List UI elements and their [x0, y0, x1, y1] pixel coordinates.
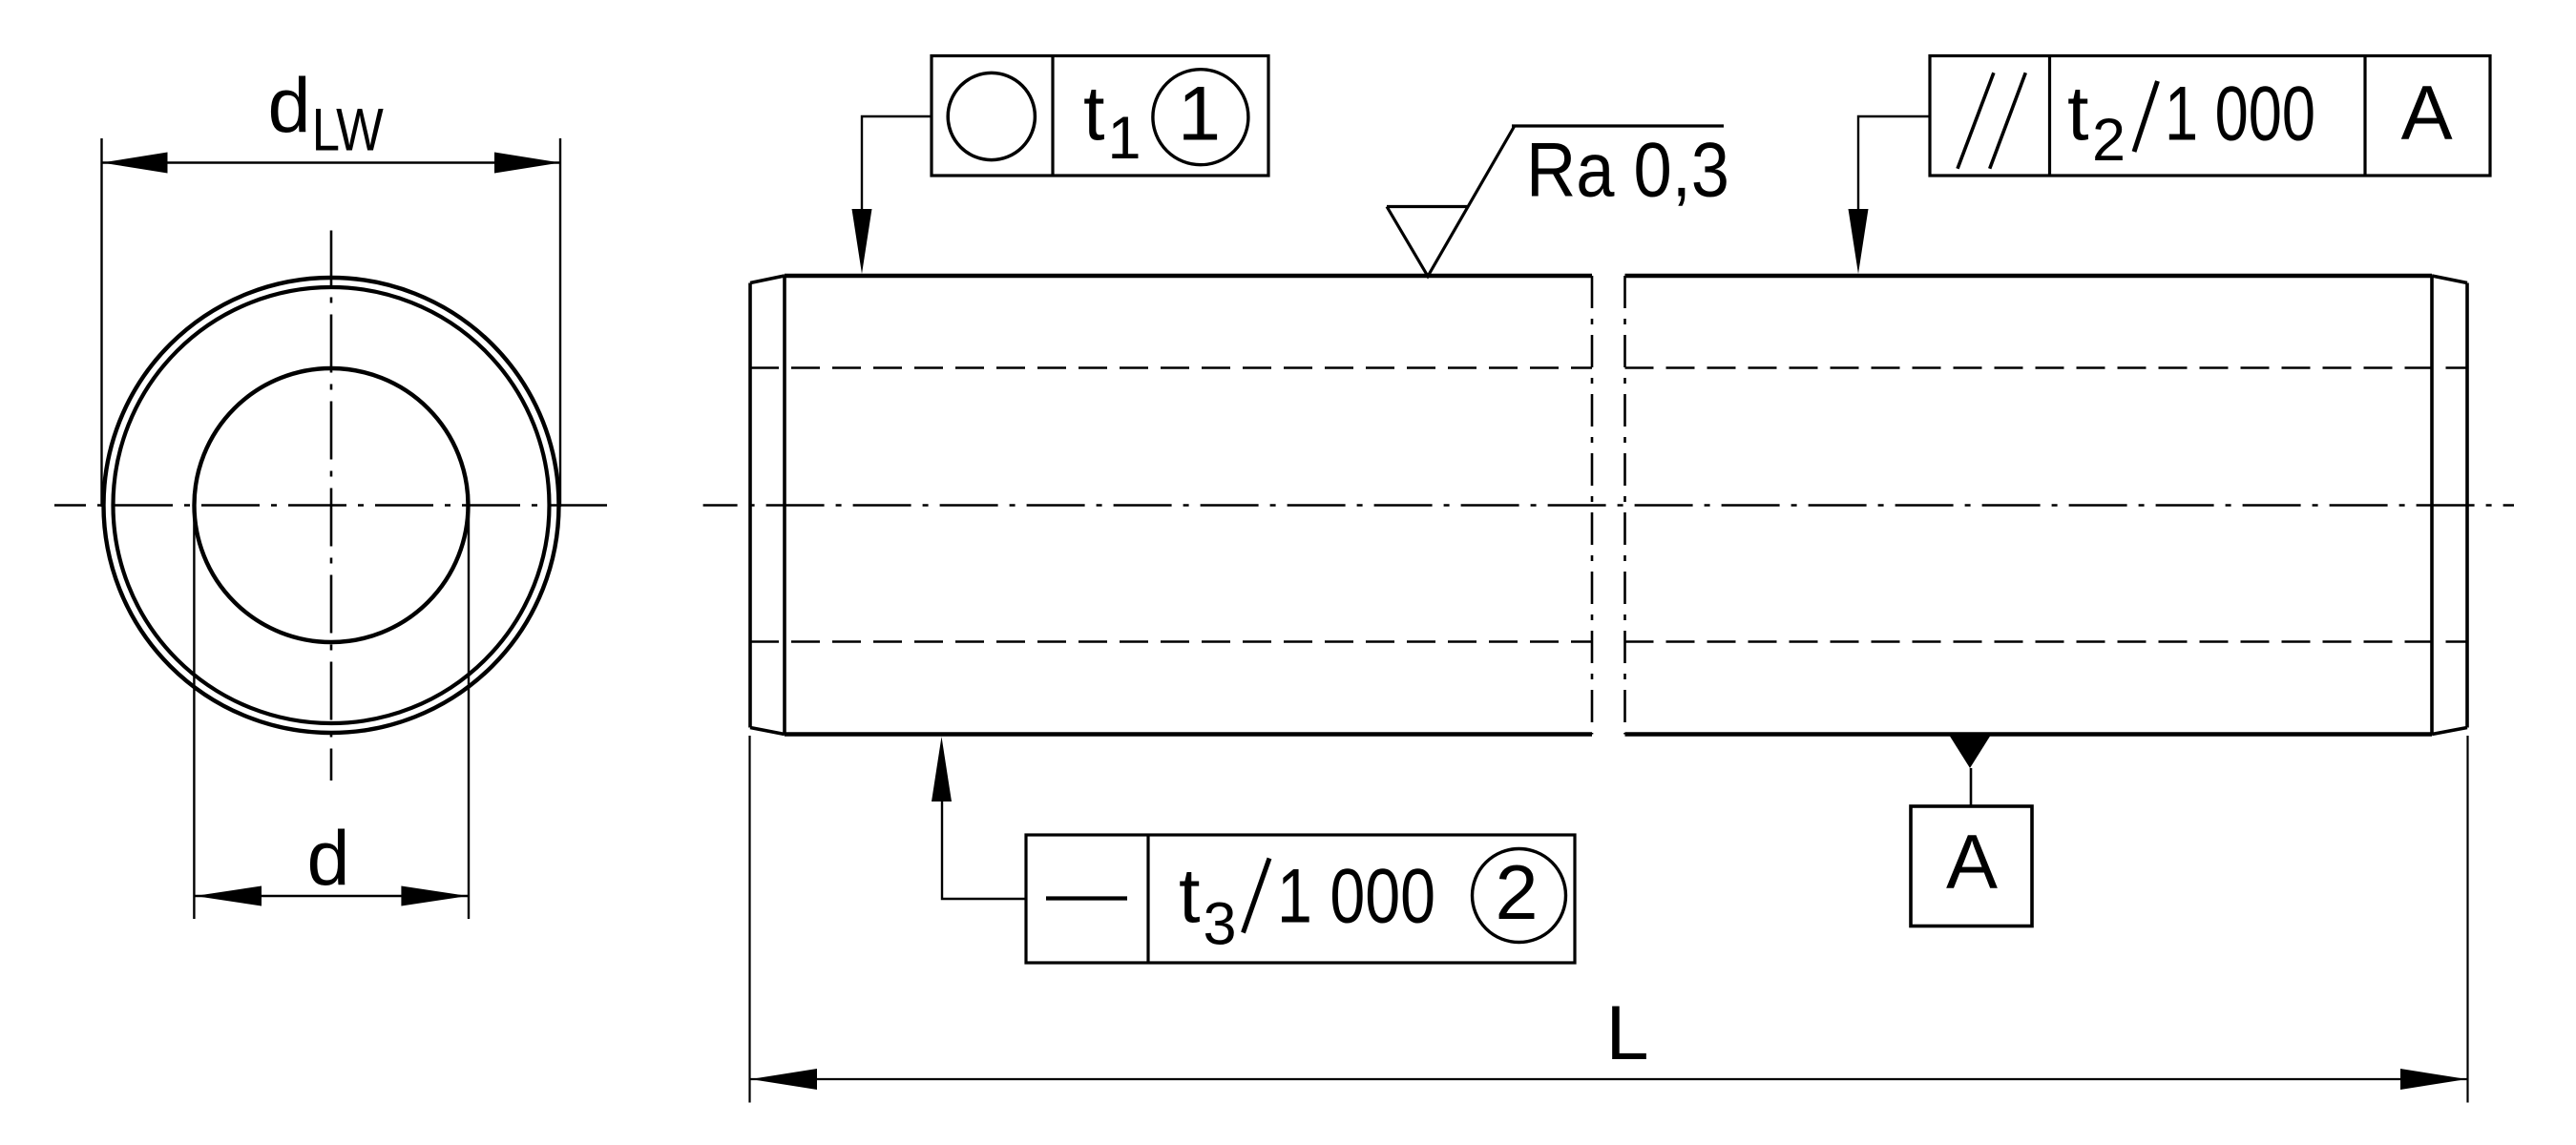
circularity callout: frame	[932, 56, 1268, 177]
dimension d: left arrowhead	[195, 886, 262, 906]
svg-text:A: A	[1946, 820, 1998, 906]
left view: outer circle (shaft OD)	[104, 278, 559, 733]
svg-text:1 000: 1 000	[1277, 854, 1435, 940]
circularity callout: roundness symbol	[948, 73, 1035, 159]
svg-text:1 000: 1 000	[2165, 72, 2315, 157]
shaft: bore hidden line top left	[750, 366, 1592, 369]
circularity callout: leader arrowhead	[852, 209, 872, 274]
svg-text:d: d	[268, 63, 311, 149]
dimension L: left extension line	[748, 736, 750, 1103]
svg-text:LW: LW	[312, 97, 384, 164]
straightness callout: slash	[1244, 859, 1270, 933]
straightness callout: leader arrowhead	[932, 737, 952, 801]
dimension L: right extension line	[2466, 736, 2468, 1103]
straightness callout: circled 2 badge	[1473, 849, 1566, 943]
svg-text:2: 2	[1495, 850, 1538, 936]
shaft: left end face	[748, 283, 752, 728]
dimension d: right arrowhead	[401, 886, 468, 906]
shaft: top edge left segment	[785, 274, 1592, 278]
shaft: left bottom chamfer diagonal	[750, 728, 785, 735]
datum A: box	[1911, 806, 2032, 926]
shaft: bore hidden line top right	[1625, 366, 2468, 369]
surface finish symbol Ra 0,3	[1387, 126, 1724, 277]
svg-text:Ra 0,3: Ra 0,3	[1526, 128, 1729, 214]
left view: bore circle	[195, 368, 469, 642]
shaft: right bottom chamfer diagonal	[2432, 728, 2467, 735]
shaft: top edge right segment	[1625, 274, 2433, 278]
straightness symbol bar	[1046, 896, 1127, 900]
left view: inner ring circle	[114, 287, 550, 723]
parallelism callout: frame divider 1	[2048, 56, 2051, 177]
datum A: stem	[1970, 768, 1973, 806]
shaft: break line left	[1591, 276, 1594, 735]
straightness callout: leader line	[942, 800, 1026, 899]
parallelism symbol //	[1958, 73, 1994, 169]
dimension d: right extension line	[468, 506, 470, 920]
parallelism callout: slash	[2134, 81, 2158, 152]
shaft: bore hidden line bottom left	[750, 640, 1592, 643]
shaft: right end face	[2465, 283, 2469, 728]
svg-text:t: t	[1083, 72, 1105, 157]
dimension d_LW: right arrowhead	[494, 153, 560, 174]
circularity callout: circled 1 badge	[1153, 70, 1248, 165]
shaft: axis centerline	[703, 504, 2514, 507]
circularity callout: frame divider	[1051, 56, 1054, 177]
dimension d_LW: left extension line	[100, 138, 102, 507]
dimension L: right arrowhead	[2400, 1069, 2467, 1090]
datum A: filled triangle on shaft	[1949, 735, 1991, 768]
left view: horizontal centerline	[54, 504, 607, 507]
shaft: right top chamfer diagonal	[2432, 276, 2467, 283]
dimension d: dimension line	[194, 895, 469, 897]
straightness callout: frame divider	[1146, 835, 1149, 963]
shaft: break line right	[1623, 276, 1626, 735]
svg-text:d: d	[307, 816, 350, 902]
svg-text:1: 1	[1178, 72, 1221, 157]
svg-text:A: A	[2401, 71, 2453, 156]
dimension d_LW: left arrowhead	[102, 153, 168, 174]
parallelism callout: leader arrowhead	[1849, 209, 1869, 274]
dimension d: left extension line	[193, 506, 195, 920]
svg-text:t: t	[2067, 72, 2089, 157]
left view: vertical centerline	[330, 231, 333, 781]
dimension d_LW: right extension line	[559, 138, 561, 507]
dimension L: left arrowhead	[751, 1069, 818, 1090]
dimension d_LW: dimension line	[102, 161, 561, 163]
parallelism callout: frame	[1930, 56, 2490, 177]
shaft: right chamfer edge line	[2430, 276, 2434, 735]
shaft: bottom edge right segment	[1625, 732, 2433, 736]
straightness callout: frame	[1026, 835, 1575, 963]
dimension L: dimension line	[750, 1078, 2468, 1080]
svg-text:t: t	[1179, 854, 1201, 940]
shaft: bottom edge left segment	[785, 732, 1592, 736]
shaft: left chamfer edge line	[783, 276, 786, 735]
circularity callout: leader line	[862, 116, 932, 215]
shaft: bore hidden line bottom right	[1625, 640, 2468, 643]
svg-text:L: L	[1605, 990, 1648, 1076]
svg-text:1: 1	[1108, 105, 1141, 172]
shaft: left top chamfer diagonal	[750, 276, 785, 283]
parallelism callout: frame divider 2	[2363, 56, 2366, 177]
svg-text:2: 2	[2092, 107, 2126, 174]
svg-text:3: 3	[1204, 891, 1237, 958]
parallelism callout: leader line	[1858, 116, 1930, 215]
